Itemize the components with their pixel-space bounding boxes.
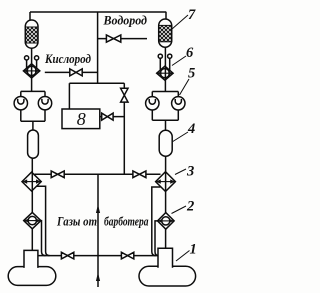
flow meter 6 small circle a — [158, 54, 162, 58]
wire right mid vertical drop — [123, 83, 125, 174]
washer bottles left manifold bottom — [21, 110, 45, 121]
washer bottles right manifold bottom — [152, 110, 178, 120]
gas meter diamond 2 right — [158, 213, 175, 230]
washer bottles right manifold top — [152, 91, 178, 93]
arrow up bottom — [96, 273, 100, 282]
svg-text:3: 3 — [186, 164, 194, 180]
gas meter diamond 2 left — [24, 212, 41, 228]
svg-text:5: 5 — [188, 66, 195, 82]
flow meter 6 diamond — [157, 66, 173, 80]
svg-text:1: 1 — [190, 242, 197, 258]
svg-text:Водород: Водород — [103, 12, 148, 27]
vessel dryer column left — [25, 20, 38, 48]
gas meter diamond 3 left — [22, 172, 41, 191]
wire top header line — [30, 11, 166, 13]
flow meter 6 small circle b — [168, 54, 172, 58]
wire bypass from diamond 3 left — [37, 186, 50, 255]
electrolyzer vessel right dome — [158, 248, 173, 268]
flow meter left small circle b — [35, 56, 39, 60]
leader line 4 — [173, 132, 188, 142]
svg-text:6: 6 — [186, 45, 194, 61]
washer bottle right B — [177, 92, 179, 99]
leader line 3 — [175, 169, 186, 175]
valve on oxygen line — [70, 69, 82, 76]
flow meter left inner circle — [27, 66, 36, 75]
svg-text:4: 4 — [187, 121, 195, 137]
wire main right column lower — [165, 156, 167, 248]
electrolyzer vessel left dome — [24, 250, 38, 268]
wire stem dryer to flow meter left — [31, 48, 33, 91]
leader line 5 — [180, 79, 190, 95]
wire manifold to capsule 4 — [165, 120, 167, 130]
vessel dryer column right 7 — [159, 19, 172, 47]
wire left riser — [29, 12, 31, 22]
valve connector left — [51, 171, 64, 178]
svg-text:Кислород: Кислород — [44, 51, 91, 66]
diamond 3 left arrow — [24, 181, 39, 183]
wire bubbler line bottom — [38, 255, 158, 257]
svg-text:барботера: барботера — [104, 214, 149, 229]
wire exit from diamond 2 left — [41, 221, 46, 256]
wire oxygen takeoff line — [45, 71, 98, 73]
leader line 1 — [176, 251, 190, 262]
svg-text:8: 8 — [77, 109, 86, 129]
washer bottle left A — [20, 91, 22, 98]
gas meter diamond 3 right — [156, 172, 176, 192]
flow meter 6 arrow — [159, 72, 171, 74]
valve bubbler right — [121, 252, 133, 259]
wire box 8 outlet — [100, 116, 124, 118]
dryer right packing hatch — [159, 25, 172, 41]
leader line 7 — [172, 15, 188, 29]
leader line 2 — [172, 206, 187, 214]
flow meter left circle stems — [27, 60, 37, 68]
wire manifold to capsule left — [32, 121, 34, 130]
washer bottle right A — [151, 92, 153, 99]
dryer left packing hatch — [25, 27, 38, 43]
wire mid horizontal to regulator branch — [69, 82, 124, 84]
washer bottle left B — [44, 91, 46, 98]
electrolyzer vessel left capsule — [8, 267, 56, 286]
electrolyzer vessel right capsule — [139, 266, 196, 286]
svg-text:Газы от: Газы от — [56, 214, 97, 229]
wire center gas inlet line — [97, 174, 99, 287]
wire hydrogen takeoff line — [98, 38, 147, 40]
leader line 6 — [172, 56, 186, 66]
flow meter left small circle a — [25, 56, 29, 60]
flow meter left arrow — [25, 70, 37, 72]
wire bypass from diamond 3 right — [152, 187, 161, 256]
washer bottles left manifold top — [21, 90, 45, 92]
wire drop into box 8 — [68, 83, 70, 109]
wire exit from diamond 2 right — [155, 221, 159, 256]
arrow up middle — [96, 205, 100, 214]
flow meter 6 circle stems — [160, 58, 169, 70]
valve on hydrogen line — [106, 35, 120, 42]
regulator box 8 — [62, 109, 100, 129]
valve vertical on mid drop — [121, 88, 128, 102]
receiver capsule 4 — [159, 130, 172, 156]
flow meter 6 inner circle — [160, 69, 169, 78]
wire stem vessel 7 to diamond 6 — [164, 47, 166, 91]
wire connector line between diamonds — [35, 173, 161, 175]
valve connector right — [133, 171, 146, 178]
wire main left column lower — [31, 158, 33, 250]
wire right riser — [165, 12, 167, 21]
svg-text:7: 7 — [188, 7, 196, 23]
valve bubbler left — [61, 252, 73, 259]
svg-text:2: 2 — [186, 199, 194, 215]
valve on box 8 outlet — [102, 113, 113, 120]
receiver capsule left — [28, 130, 39, 158]
flow meter left diamond — [23, 64, 39, 78]
diamond 3 right arrow — [158, 181, 174, 183]
wire center top vertical — [97, 12, 99, 83]
